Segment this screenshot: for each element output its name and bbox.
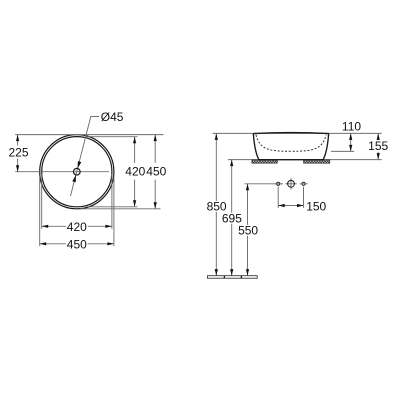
svg-text:Ø45: Ø45 — [101, 110, 124, 124]
bottom tangent extension line (420) — [86, 206, 138, 208]
top tangent extension line (420) — [86, 136, 138, 138]
floor hatch bar — [207, 276, 257, 279]
basin inner rim circle — [42, 137, 112, 207]
dimension 155 — [368, 133, 390, 159]
drain center line — [245, 183, 283, 185]
fixing hole left — [275, 182, 282, 208]
svg-text:450: 450 — [67, 237, 87, 251]
counter pad left (hatched) — [252, 160, 277, 163]
dimension 110 — [331, 119, 361, 151]
svg-text:155: 155 — [368, 139, 388, 153]
horizontal center line (right of drain) — [80, 171, 109, 173]
drain hole leader dimension ⍅45 — [71, 110, 124, 196]
dimension 420 vertical — [133, 137, 136, 207]
svg-text:550: 550 — [238, 223, 258, 237]
dimension 550 — [238, 184, 259, 276]
fixing hole right — [300, 182, 308, 208]
drain outlet circle with cross — [285, 178, 296, 189]
svg-text:150: 150 — [306, 199, 326, 213]
dimension 850 — [206, 133, 227, 275]
left view: washbasin top view — [40, 135, 114, 209]
basin profile outline — [253, 133, 328, 160]
basin outer rim circle — [40, 135, 114, 209]
extension lines for bottom dimensions — [41, 174, 43, 229]
counter pad right (hatched) — [304, 160, 330, 163]
dimension 150 — [278, 199, 326, 213]
top tangent extension line (450) — [15, 134, 163, 136]
inner bowl dashed profile — [256, 135, 326, 152]
countertop line — [228, 159, 382, 161]
bottom tangent extension line (450) — [80, 208, 161, 210]
horizontal center line (left of drain) — [15, 171, 73, 173]
dimension 450 horizontal — [40, 237, 114, 251]
dimension 450 vertical — [125, 135, 167, 209]
svg-text:110: 110 — [342, 119, 361, 133]
rim-top extension line — [213, 132, 382, 134]
svg-text:225: 225 — [8, 145, 28, 159]
dimension 420 horizontal — [42, 220, 112, 234]
dimension 225 (radius) — [8, 135, 28, 172]
svg-text:450: 450 — [146, 165, 166, 179]
dimension 695 — [221, 160, 242, 276]
svg-text:420: 420 — [67, 220, 87, 234]
svg-text:420: 420 — [125, 165, 145, 179]
